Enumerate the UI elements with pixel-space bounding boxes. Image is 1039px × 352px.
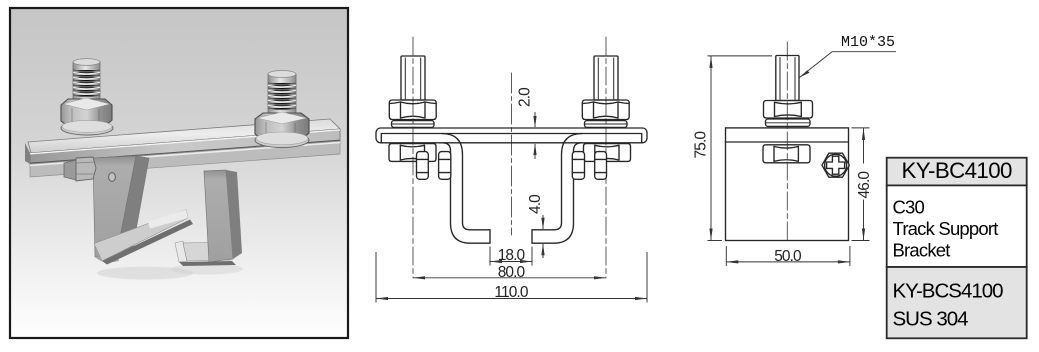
svg-text:50.0: 50.0	[774, 248, 802, 265]
dim 18.0	[489, 247, 491, 266]
svg-text:KY-BC4100: KY-BC4100	[902, 158, 1012, 183]
front: right bolt hex nut	[582, 100, 629, 120]
leader M10*35	[832, 51, 896, 53]
front: left square nut B	[439, 152, 451, 180]
side: phillips screw head	[822, 153, 849, 177]
side: centerline	[786, 42, 788, 241]
photo panel frame	[10, 8, 348, 338]
photo: left foot lip face	[148, 210, 188, 229]
svg-text:KY-BCS4100: KY-BCS4100	[893, 280, 1004, 303]
photo: right foot lip end face	[175, 241, 187, 262]
front: left channel leg	[442, 134, 491, 244]
table middle row	[887, 185, 1027, 267]
side: bolt hex nut	[764, 101, 813, 119]
side: bolt washer	[766, 119, 811, 126]
dim 80.0	[413, 277, 606, 279]
side: inner hex nut	[763, 145, 810, 163]
photo: left foot bright inner face	[94, 210, 188, 262]
svg-text:75.0: 75.0	[693, 131, 710, 159]
front: central axis line	[511, 73, 513, 235]
svg-text:46.0: 46.0	[856, 171, 873, 199]
side: block body	[726, 128, 849, 241]
svg-text:M10*35: M10*35	[841, 34, 895, 51]
front: left lower hex nut	[389, 144, 436, 162]
front: right bolt centerline	[605, 37, 607, 278]
table header row	[887, 158, 1027, 186]
dim 50.0	[725, 246, 727, 266]
front: plate inner edge lines	[381, 134, 641, 143]
photo: right bolt thread	[268, 71, 296, 117]
dim 110.0	[375, 252, 377, 303]
photo: plate left end	[25, 143, 30, 164]
photo: plate top face	[28, 119, 340, 153]
front: left bolt centerline	[412, 37, 414, 278]
photo: floor shadow under feet	[97, 267, 193, 280]
photo: left bolt thread	[73, 59, 100, 102]
dim 4.0 arrows	[542, 215, 544, 229]
table bottom row	[887, 267, 1027, 338]
side: dimensions	[708, 52, 897, 266]
dim 46.0	[852, 127, 870, 129]
photo: right bolt washer	[255, 133, 309, 148]
photo: left leg bottom bend	[95, 253, 119, 262]
svg-text:C30: C30	[893, 197, 925, 218]
front: left bolt hex nut	[389, 100, 436, 120]
dim 75.0	[708, 55, 773, 57]
photo: left leg hole	[109, 173, 116, 182]
front: right square nut B	[572, 152, 584, 180]
front: right channel leg	[532, 134, 583, 244]
front: left square nut A	[417, 152, 429, 180]
svg-text:Track Support: Track Support	[893, 218, 999, 239]
photo: left foot underside	[102, 220, 193, 265]
photo: left bolt washer	[61, 121, 113, 135]
front: right lower hex nut	[584, 144, 631, 162]
photo: left side small bolt head	[64, 157, 96, 181]
photo: right foot underside	[179, 261, 236, 266]
photo: left bolt hex nut	[61, 98, 112, 127]
side: bolt shaft	[776, 56, 799, 101]
photo: right leg front face	[204, 170, 233, 262]
dim 2.0 arrows	[534, 112, 536, 127]
svg-text:SUS 304: SUS 304	[893, 308, 969, 331]
front: right square nut A	[595, 152, 607, 180]
photo: right leg side face	[226, 170, 242, 259]
photo: right foot bright top face	[183, 242, 234, 261]
svg-text:2.0: 2.0	[517, 87, 534, 107]
side: plate edge line	[726, 141, 849, 143]
photo: left leg front face	[93, 156, 136, 257]
photo: right bolt hex nut	[255, 112, 309, 140]
front: dimensions	[376, 112, 647, 303]
front: right bolt washer	[585, 121, 628, 128]
svg-text:4.0: 4.0	[527, 194, 544, 214]
photo: plate front face	[30, 129, 340, 164]
svg-text:18.0: 18.0	[498, 247, 526, 264]
front: plate outline	[376, 128, 647, 143]
svg-text:80.0: 80.0	[498, 264, 526, 281]
photo: bracket top flange strip under plate	[30, 141, 340, 177]
front: right bolt shaft	[594, 56, 618, 100]
photo: left leg side face	[117, 156, 149, 253]
front: left bolt washer	[392, 121, 435, 128]
dim 4.0 extension stubs	[533, 229, 549, 231]
svg-text:110.0: 110.0	[494, 284, 528, 301]
svg-text:Bracket: Bracket	[893, 239, 951, 260]
front: left bolt shaft	[401, 56, 425, 100]
